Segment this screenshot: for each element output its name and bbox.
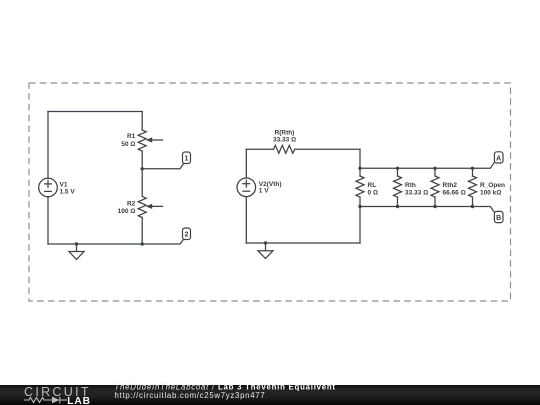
svg-text:1 V: 1 V [259,188,269,195]
footer bar [0,385,540,405]
resistor RL with right side wires [356,149,364,243]
svg-text:V1: V1 [60,181,68,188]
svg-text:R1: R1 [127,133,136,140]
wire bottom rail [360,207,494,213]
junction node at left ground [75,242,78,245]
svg-text:66.66 Ω: 66.66 Ω [443,189,466,196]
svg-text:100 kΩ: 100 kΩ [480,189,501,196]
svg-text:LAB: LAB [67,396,91,405]
svg-text:33.33 Ω: 33.33 Ω [273,137,296,144]
label R2 value [118,200,136,215]
svg-text:R2: R2 [127,200,136,207]
resistor R(Rth) [274,145,295,153]
resistor Rth [394,168,402,206]
resistor R_Open [469,168,477,206]
label R_Open value [480,182,505,196]
junction node Rth bottom [396,205,399,208]
junction node R_Open top [471,167,474,170]
svg-text:50 Ω: 50 Ω [121,141,135,148]
svg-text:http://circuitlab.com/c25w7yz3: http://circuitlab.com/c25w7yz3pn477 [115,391,266,400]
ground (left circuit) [69,244,84,260]
junction node RL top [358,167,361,170]
svg-text:R(Rth): R(Rth) [275,129,295,136]
node flag 2 [183,228,191,240]
junction node RL bottom [358,205,361,208]
svg-text:0 Ω: 0 Ω [368,189,378,196]
junction node at R1/R2 tap [141,167,144,170]
voltage source V2(Vth) [237,178,256,197]
node flag A [494,152,503,163]
label R(Rth) value [273,129,296,143]
wire right-circuit bottom [246,242,360,244]
voltage source V1 [39,178,58,197]
label V2(Vth) value [259,181,282,194]
svg-text:33.33 Ω: 33.33 Ω [405,189,428,196]
wire left-circuit top [48,111,142,113]
svg-text:Rth: Rth [405,182,416,189]
label Rth value [405,182,428,196]
label V1 value [60,181,76,195]
svg-text:B: B [496,215,501,222]
resistor R2 (potentiometer) [138,169,162,244]
wire right-circuit left side upper [245,149,247,178]
junction node at right ground [264,241,267,244]
svg-text:100 Ω: 100 Ω [118,208,136,215]
junction node Rth top [396,167,399,170]
svg-text:Rth2: Rth2 [443,182,458,189]
wire right-circuit left side lower [245,197,247,243]
label RL value [368,182,378,196]
svg-text:1: 1 [185,156,189,163]
wire top rail [360,163,494,169]
node flag B [494,211,503,222]
svg-text:1.5 V: 1.5 V [60,189,76,196]
junction node R_Open bottom [471,205,474,208]
svg-text:R_Open: R_Open [480,182,505,189]
wire right-circuit top right segment [295,148,360,150]
wire right-circuit top left segment [246,148,273,150]
wire left-circuit bottom [48,239,184,244]
junction node Rth2 bottom [433,205,436,208]
junction node at left bottom R2 [141,242,144,245]
selection border (dashed) [29,83,511,301]
node flag 1 [183,152,191,164]
CircuitLab logo resistor-diode symbol [24,397,67,404]
ground (right circuit) [258,243,273,259]
wire node 1 [142,164,183,169]
label Rth2 value [443,182,466,196]
svg-text:A: A [496,155,501,162]
wire left-circuit left side upper [47,112,49,179]
svg-text:2: 2 [185,232,189,239]
junction node Rth2 top [433,167,436,170]
wire left-circuit left side lower [47,197,49,244]
svg-text:RL: RL [368,182,377,189]
label R1 value [121,133,135,148]
resistor Rth2 [431,168,439,206]
resistor R1 (potentiometer) [138,112,162,169]
